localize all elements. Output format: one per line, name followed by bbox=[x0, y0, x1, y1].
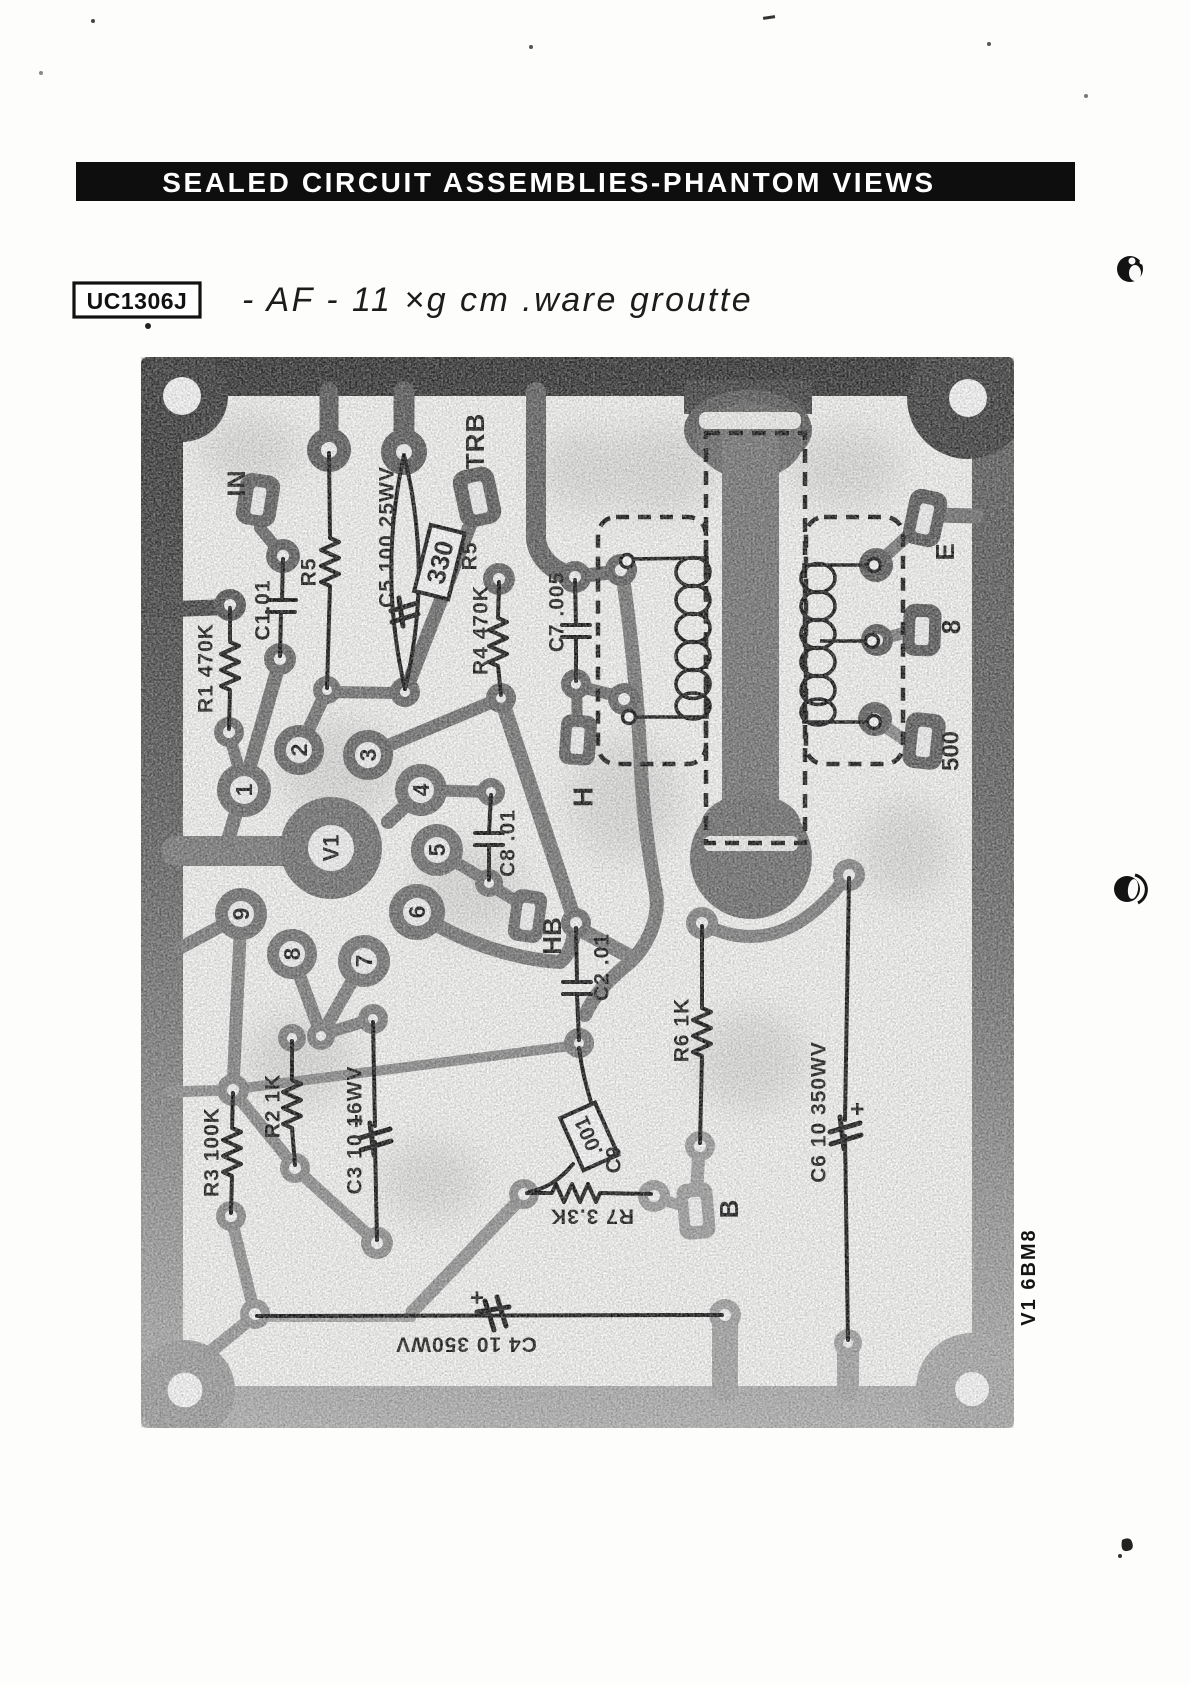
capacitor C6 wire + electrolytic plates bbox=[845, 878, 849, 1340]
capacitor C3 wire + electrolytic plates bbox=[373, 1022, 377, 1240]
halftone speckle light bbox=[141, 357, 1014, 1428]
wire B cluster left arm bbox=[656, 1198, 680, 1205]
wire pad 6 to HB cluster bbox=[418, 913, 575, 962]
numbered pad 2 bbox=[274, 725, 324, 775]
terminal 500 bbox=[901, 711, 947, 771]
pad R5 bottom bbox=[313, 676, 341, 704]
numbered pad 1 bbox=[217, 763, 271, 817]
wire tab to pad B bbox=[394, 392, 415, 452]
wire bottom tab pad 1 bbox=[712, 1322, 738, 1388]
pad C3 bottom bbox=[361, 1227, 393, 1259]
header bar bbox=[76, 162, 1075, 201]
wire R5 bottom to C5 bottom bbox=[328, 692, 404, 693]
mounting hole BR bbox=[955, 1372, 989, 1406]
white slot bottom bbox=[704, 836, 798, 851]
transformer core bottom blob bbox=[690, 797, 812, 919]
wire junction to C3 top bbox=[321, 1019, 372, 1035]
pad C8 bottom bbox=[475, 869, 503, 897]
transformer core mushroom under top border bbox=[684, 380, 812, 414]
wire C1 bottom pad to pad 1 bbox=[245, 661, 280, 783]
dashed left winding box bbox=[598, 517, 706, 764]
capacitor C2 .01 bbox=[563, 928, 591, 1040]
capacitor C9 wire to R7 bbox=[529, 1164, 573, 1192]
terminal B bbox=[676, 1182, 717, 1241]
wire R3 top to R2 bottom bbox=[234, 1092, 294, 1166]
pad H cluster left bbox=[559, 561, 591, 593]
wire R1 top to left border bbox=[146, 607, 228, 610]
numbered pad 6 bbox=[389, 884, 445, 940]
wire left border to pad 9 bbox=[180, 917, 238, 948]
capacitor C5 lens wires bbox=[391, 455, 419, 689]
numbered pad 4 bbox=[395, 764, 447, 816]
pad B left bbox=[638, 1180, 670, 1212]
pad HB right bbox=[561, 908, 591, 938]
pad R6 bottom / B top bbox=[685, 1131, 715, 1161]
terminal HB bbox=[507, 888, 549, 944]
resistor box 330 bbox=[414, 525, 464, 599]
wire C7 bottom pair bbox=[577, 686, 621, 697]
bullet mark right middle bbox=[1114, 876, 1140, 902]
dashed right winding box bbox=[806, 517, 903, 764]
wire diagonal R7 left pad to bottom line bbox=[412, 1197, 522, 1312]
capacitor C4 electrolytic plates bbox=[477, 1297, 509, 1330]
coil left terminals (open circles) bbox=[621, 555, 634, 568]
wire R1 bottom pad to pad 1 bbox=[229, 734, 243, 783]
resistor R1 470K bbox=[221, 608, 239, 729]
wire bottom tab pad 2 bbox=[837, 1348, 859, 1390]
corner bump TL bbox=[136, 350, 228, 442]
white slot top bbox=[699, 412, 801, 429]
bullet mark right top bbox=[1117, 256, 1143, 282]
capacitor C1 .01 bbox=[267, 559, 296, 656]
pad R4 bottom bbox=[486, 683, 516, 713]
pad R4 top bbox=[483, 563, 515, 595]
resistor R3 100K bbox=[223, 1093, 241, 1213]
numbered pad 9 bbox=[215, 888, 267, 940]
mounting hole BL bbox=[168, 1373, 203, 1408]
svg-text:- AF - 11 ×g cm .ware groutte: - AF - 11 ×g cm .ware groutte bbox=[242, 281, 753, 319]
pad C2 bottom bbox=[564, 1028, 594, 1058]
wire E pad to right border bbox=[938, 515, 976, 516]
wire TRB diagonal to C5 bottom pad bbox=[406, 515, 474, 690]
wire tab to pad A bbox=[320, 392, 339, 450]
coil right terminals (open circles) bbox=[868, 559, 881, 572]
pad R6 top bbox=[686, 907, 718, 939]
resistor R7 3.3K bbox=[527, 1184, 651, 1202]
capacitor C9 wire from C2 pad bbox=[579, 1048, 592, 1106]
pad R3 bottom bbox=[216, 1201, 246, 1231]
corner bump BL bbox=[135, 1340, 235, 1440]
core bottom dome bbox=[701, 794, 801, 858]
terminal TRB bbox=[450, 464, 503, 529]
pad C1 top bbox=[266, 539, 300, 573]
right border lighter overlay bbox=[972, 390, 1014, 1010]
wire IN pad to C1 top pad bbox=[260, 528, 283, 556]
dashed core box bbox=[706, 433, 805, 843]
pad coil left bottom bbox=[608, 683, 640, 715]
wire HB right pad to X cluster bbox=[579, 929, 633, 958]
board border frame bbox=[141, 357, 1014, 1428]
wire 500 pad to coil pad bbox=[880, 723, 906, 741]
svg-text:SEALED CIRCUIT ASSEMBLIES-PHAN: SEALED CIRCUIT ASSEMBLIES-PHANTOM VIEWS bbox=[162, 167, 935, 198]
UC1306J label box bbox=[74, 283, 200, 317]
pad top A bbox=[307, 428, 351, 472]
wire H cluster pads bbox=[575, 571, 621, 577]
pad C1 bottom bbox=[264, 643, 296, 675]
wire 8 pad to coil pad bbox=[881, 633, 904, 639]
pad R3 top bbox=[217, 1074, 249, 1106]
wire left border to R3 top bbox=[170, 1090, 230, 1092]
numbered pad 7 bbox=[338, 935, 390, 987]
tube V1 disc bbox=[280, 797, 382, 899]
pad coil right bottom bbox=[858, 702, 892, 736]
halftone speckle dark bbox=[141, 357, 1014, 1428]
pad bottom-left corner bbox=[240, 1299, 270, 1329]
capacitor C4 long wire bbox=[257, 1315, 722, 1316]
resistor R4 470K bbox=[489, 582, 507, 695]
handwritten annotation bbox=[242, 281, 753, 319]
pad junction 7-8 bbox=[307, 1022, 335, 1050]
dot under label box bbox=[145, 323, 151, 329]
terminal H bbox=[558, 714, 597, 766]
coil left L1 bbox=[634, 558, 710, 720]
wire R4 bottom to HB right pad bbox=[502, 701, 574, 918]
wire R3 bottom to BL pad bbox=[231, 1217, 254, 1311]
pad R7 left bbox=[509, 1179, 539, 1209]
wire pad 4 to V1 bbox=[388, 794, 418, 822]
small ink mark bottom right bbox=[1122, 1538, 1133, 1551]
pad C8 top bbox=[477, 778, 505, 806]
capacitor C8 .01 bbox=[475, 795, 503, 880]
wire E pad to coil pad bbox=[879, 532, 912, 562]
pad C7 bottom bbox=[561, 669, 591, 699]
coil right L2 bbox=[801, 564, 868, 726]
transformer core bar bbox=[722, 429, 779, 819]
wire B cluster stem bbox=[697, 1150, 699, 1184]
pad bottom tab 1 bbox=[709, 1299, 741, 1331]
mounting hole TL bbox=[163, 377, 201, 415]
terminal IN bbox=[234, 471, 282, 529]
resistor R2 1K bbox=[283, 1041, 301, 1165]
soft halftone blotches bbox=[200, 415, 950, 1220]
wire V1 to left border bbox=[176, 836, 292, 866]
pad coil right mid bbox=[861, 624, 893, 656]
pad R1 top bbox=[214, 589, 246, 621]
numbered pad 5 bbox=[411, 824, 463, 876]
pad C5 bottom bbox=[390, 677, 420, 707]
wire faint along C4 line bbox=[259, 1314, 412, 1322]
wire pad 4 to C8 top bbox=[421, 790, 491, 792]
wire pad 1 to V1 arm bbox=[228, 790, 243, 840]
wire pad 9 down to R3 top bbox=[233, 915, 241, 1088]
svg-text:V1 6BM8: V1 6BM8 bbox=[1018, 1228, 1040, 1325]
pad R1 bottom bbox=[214, 717, 244, 747]
wire pad 3 to R4 bottom bbox=[368, 699, 499, 754]
wire curved blob to R6 top bbox=[705, 880, 844, 937]
stray specks bbox=[91, 19, 95, 23]
resistor R6 1K bbox=[693, 926, 711, 1143]
corner bump BR bbox=[916, 1333, 1028, 1445]
numbered pad 3 bbox=[343, 730, 393, 780]
terminal 8 bbox=[902, 603, 942, 656]
wire pad 7 to junction bbox=[322, 962, 363, 1034]
wire H pad stem bbox=[572, 700, 583, 720]
wire BL pad into corner bump bbox=[210, 1317, 253, 1352]
pad coil right top bbox=[859, 548, 893, 582]
pad R2 top bbox=[278, 1024, 306, 1052]
pad H cluster right bbox=[605, 554, 637, 586]
pad top B bbox=[381, 429, 427, 475]
wire R5 bottom pad to pad 2 bbox=[300, 692, 326, 748]
wire R2 bottom to C3 bottom bbox=[296, 1169, 375, 1241]
mounting hole TR bbox=[949, 379, 987, 417]
pad C3 top bbox=[358, 1004, 388, 1034]
wire long from left coil pad down to X cluster bbox=[585, 578, 657, 1015]
wire diagonal C2 pad to R3 top bbox=[236, 1045, 578, 1089]
wire C8 bottom to HB bbox=[490, 885, 516, 901]
pad R2 bottom bbox=[280, 1153, 310, 1183]
capacitor C5 electrolytic plates bbox=[391, 598, 418, 626]
pad bottom tab 2 bbox=[834, 1329, 862, 1357]
capacitor C9 box .001 bbox=[560, 1103, 618, 1171]
interior bbox=[183, 396, 972, 1386]
svg-text:UC1306J: UC1306J bbox=[87, 288, 188, 314]
numbered pad 8 bbox=[267, 929, 317, 979]
wire pad 5 to C8 bottom bbox=[437, 851, 489, 882]
capacitor C7 .005 bbox=[562, 580, 590, 681]
pad transformer right bbox=[833, 859, 865, 891]
core top dome bbox=[697, 403, 803, 479]
corner bump TR bbox=[907, 337, 1029, 459]
terminal E bbox=[901, 487, 950, 550]
wire pad 8 to junction bbox=[292, 955, 321, 1034]
resistor R5 (vertical from pad A) bbox=[321, 453, 339, 688]
wire top-center down to H cluster bbox=[536, 392, 574, 577]
